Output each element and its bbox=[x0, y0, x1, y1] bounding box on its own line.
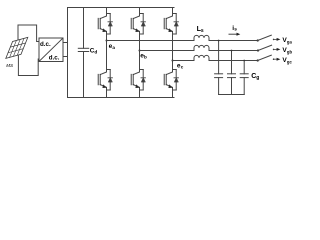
wire bottom rail bbox=[68, 97, 175, 99]
diode D6 bbox=[141, 70, 145, 91]
svg-text:d: d bbox=[94, 49, 97, 55]
label ea bbox=[109, 43, 116, 50]
label ec bbox=[177, 62, 184, 69]
label Cd bbox=[90, 48, 98, 56]
inductor phase B bbox=[194, 45, 209, 50]
transistor Q3 (IGBT) bbox=[131, 14, 143, 35]
wire phase C to switch bbox=[209, 60, 258, 62]
wire top rail bbox=[68, 7, 175, 9]
label Ls bbox=[197, 24, 204, 34]
inductor phase C bbox=[194, 55, 209, 60]
diode D5 bbox=[174, 14, 178, 35]
wire phase C bbox=[173, 60, 195, 62]
wire leg 1 midsection bbox=[106, 34, 108, 70]
node ec junction dot bbox=[172, 60, 174, 62]
wire capacitor tap A bbox=[218, 41, 220, 74]
inductor Ls phase A bbox=[194, 35, 209, 40]
wire PV bottom to d.c. box bbox=[18, 56, 39, 76]
switch phase A bbox=[257, 35, 272, 41]
PV array MS bbox=[6, 37, 28, 58]
wire phase B bbox=[140, 50, 195, 52]
wire PV top to d.c. box bbox=[18, 25, 39, 42]
capacitor Cg phase A bbox=[215, 74, 223, 95]
svg-text:d.c.: d.c. bbox=[40, 41, 51, 48]
wire phase A to switch bbox=[209, 40, 258, 42]
svg-text:s: s bbox=[201, 28, 204, 34]
capacitor Cg phase C bbox=[240, 74, 248, 95]
capacitor Cd bbox=[78, 8, 88, 98]
svg-text:a: a bbox=[112, 45, 115, 50]
node eb junction dot bbox=[139, 50, 141, 52]
diode D2 bbox=[174, 70, 178, 91]
diode D3 bbox=[141, 14, 145, 35]
wire capacitor common bus bbox=[219, 94, 245, 96]
wire leg 3 midsection bbox=[172, 34, 174, 70]
terminal arrow phase A bbox=[273, 38, 281, 41]
svg-text:gb: gb bbox=[287, 49, 293, 54]
node ea junction dot bbox=[106, 40, 108, 42]
svg-text:b: b bbox=[144, 54, 147, 59]
capacitor Cg phase B bbox=[228, 74, 236, 95]
wire box outputs to dc link bbox=[63, 43, 68, 57]
transistor Q1 (IGBT) bbox=[98, 14, 110, 35]
wire leg 2 midsection bbox=[139, 34, 141, 70]
terminal arrow phase C bbox=[273, 58, 281, 61]
label Vga bbox=[282, 37, 292, 44]
svg-text:MS: MS bbox=[6, 63, 14, 68]
switch phase B bbox=[257, 45, 272, 51]
label Cg bbox=[251, 73, 259, 81]
wire capacitor tap C bbox=[243, 61, 245, 74]
svg-text:gc: gc bbox=[287, 59, 293, 64]
svg-text:c: c bbox=[181, 64, 184, 69]
wire Q2 to bottom rail bbox=[172, 90, 174, 98]
d.c./d.c. converter box bbox=[39, 38, 63, 62]
svg-text:g: g bbox=[256, 75, 259, 81]
wire top rail to Q3 bbox=[139, 8, 141, 14]
wire Q4 to bottom rail bbox=[106, 90, 108, 98]
wire top rail to Q1 bbox=[106, 8, 108, 14]
label eb bbox=[140, 52, 147, 59]
svg-text:d.c.: d.c. bbox=[49, 54, 60, 61]
switch phase C bbox=[257, 55, 272, 61]
wire Q6 to bottom rail bbox=[139, 90, 141, 98]
wire capacitor tap B bbox=[231, 51, 233, 74]
transistor Q5 (IGBT) bbox=[164, 14, 176, 35]
transistor Q2 (IGBT) bbox=[164, 70, 176, 91]
terminal arrow phase B bbox=[273, 48, 281, 51]
transistor Q4 (IGBT) bbox=[98, 70, 110, 91]
wire top rail to Q5 bbox=[172, 8, 174, 14]
label is bbox=[232, 25, 237, 33]
transistor Q6 (IGBT) bbox=[131, 70, 143, 91]
wire phase A bbox=[107, 40, 195, 42]
label Vgc bbox=[282, 57, 292, 64]
svg-text:ga: ga bbox=[287, 39, 293, 44]
diode D4 bbox=[108, 70, 112, 91]
svg-text:s: s bbox=[234, 28, 237, 33]
wire dc link vertical bbox=[67, 8, 69, 98]
current arrow is bbox=[229, 33, 240, 36]
wire phase B to switch bbox=[209, 50, 258, 52]
label Vgb bbox=[282, 47, 292, 54]
diode D1 bbox=[108, 14, 112, 35]
